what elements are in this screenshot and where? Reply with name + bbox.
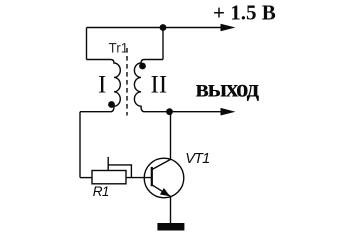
arrow +1.5V: [221, 24, 236, 32]
wire wiper to right terminal: [108, 165, 131, 178]
polarity dot winding I: [108, 101, 115, 108]
wire +1.5V rail: [87, 27, 227, 29]
svg-text:II: II: [151, 71, 168, 98]
polarity dot winding II: [139, 63, 146, 70]
resistor R1: [92, 171, 126, 184]
transformer Tr1 winding II: [134, 60, 163, 112]
wire R1 wiper tap: [107, 157, 109, 171]
wire vertical from rail junction to winding II top: [162, 28, 164, 60]
transformer Tr1 winding I: [80, 60, 120, 112]
ground: [157, 223, 184, 231]
wire R1 left lead: [80, 177, 92, 179]
transistor VT1: [144, 158, 184, 198]
transformer core (dashed): [126, 48, 128, 116]
svg-text:VT1: VT1: [185, 151, 209, 167]
svg-text:I: I: [98, 71, 106, 98]
wire collector vertical: [170, 112, 172, 160]
svg-text:+ 1.5 В: + 1.5 В: [213, 0, 276, 24]
wire left vertical winding I to R1: [79, 112, 81, 178]
junction dot on +1.5V rail: [160, 24, 167, 31]
svg-text:Tr1: Tr1: [109, 41, 129, 56]
junction dot on output rail: [166, 108, 173, 115]
wire left vertical from rail to transformer: [86, 28, 88, 60]
wire emitter vertical to ground: [170, 197, 172, 224]
wire output rail: [145, 111, 227, 113]
svg-text:R1: R1: [93, 184, 109, 199]
arrow output: [221, 108, 236, 116]
wire R1 right lead to transistor base: [126, 177, 152, 179]
svg-text:выход: выход: [196, 76, 260, 103]
